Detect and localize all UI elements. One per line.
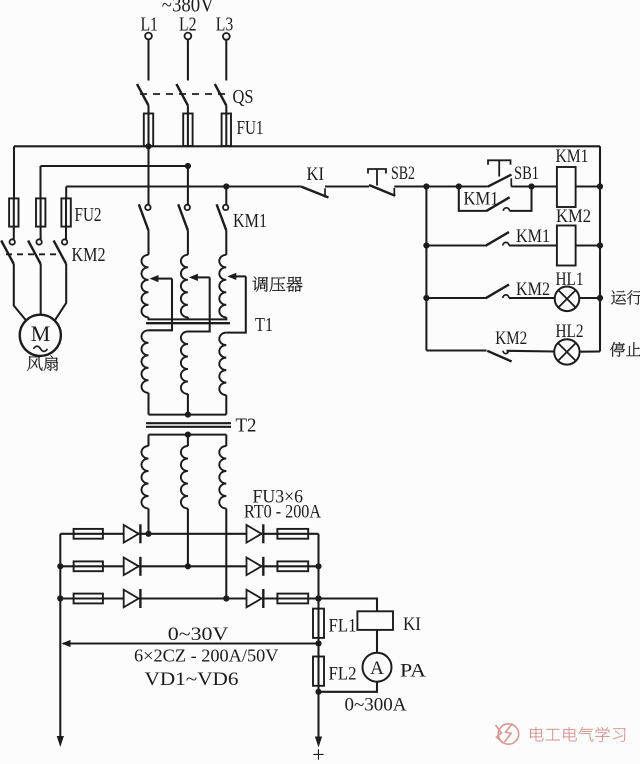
svg-text:HL2: HL2 — [556, 321, 584, 342]
contact KM1 pole3 fixed — [223, 205, 228, 210]
junction self-hold left — [456, 183, 462, 189]
wire bus2 to FU2-2 — [39, 166, 41, 198]
terminal L2 — [185, 33, 192, 40]
svg-text:T1: T1 — [255, 314, 273, 336]
contact KM1 label — [233, 210, 267, 232]
wire HL1 to rail — [579, 297, 600, 299]
svg-text:M: M — [31, 321, 51, 346]
fuse FU3 right row 1 — [277, 529, 308, 539]
label 0~300A — [345, 696, 408, 716]
contact KM1 pole2 fixed — [185, 205, 190, 210]
wire PA return — [319, 682, 378, 692]
diode VD right row 3 — [247, 589, 264, 608]
junction left rail top — [423, 183, 429, 189]
relay coil KI — [357, 611, 393, 630]
watermark text — [530, 727, 625, 742]
terminal label L3 — [216, 14, 234, 36]
svg-text:KM2: KM2 — [72, 244, 106, 266]
wire negative rail — [59, 534, 61, 737]
junction row3 rail — [315, 595, 321, 601]
wire bus3 to FU2-3 — [65, 187, 67, 199]
transformer T1 secondary coil 2 — [181, 332, 188, 395]
wire rectifier row 1 — [60, 533, 318, 535]
wire bus 3 (L3 phase) — [66, 185, 301, 187]
junction self-hold right — [528, 183, 534, 189]
switch QS pole 1 blade — [137, 84, 149, 106]
contact KM1 pole1 fixed — [145, 205, 150, 210]
fuse FL1 — [313, 609, 324, 638]
wire rung3 left — [426, 297, 485, 299]
junction row1 T2-1 — [145, 531, 151, 537]
wire KM2-3 to motor — [55, 264, 66, 320]
wire KM1-1 to T1 — [147, 230, 149, 254]
wire KM2-2 to motor — [40, 264, 42, 315]
contact KM1 self-hold — [459, 187, 532, 212]
motor M letter — [31, 321, 51, 346]
svg-text:0~300A: 0~300A — [345, 696, 408, 716]
junction positive rail row2 — [315, 563, 321, 569]
button SB2 cap — [368, 169, 386, 186]
wire rung2 left — [426, 244, 485, 246]
wire rung4 to HL2 — [507, 350, 555, 353]
wire KI to SB2 — [325, 185, 369, 187]
junction row2 left — [57, 563, 63, 569]
wire T2-3 to rectifier — [225, 509, 227, 599]
terminal label L2 — [179, 14, 197, 36]
wire T2 coil3 drop — [225, 435, 227, 446]
fuse FU2 element 2 — [36, 198, 45, 226]
svg-text:L3: L3 — [216, 14, 234, 36]
svg-text:KM1: KM1 — [233, 210, 267, 232]
svg-text:HL1: HL1 — [556, 269, 584, 290]
wire L3 drop — [225, 40, 227, 81]
wire L1 drop — [147, 39, 149, 80]
wire T1 secondary bus — [149, 414, 227, 416]
wire KM2-1 to motor — [14, 264, 26, 320]
contact KM1 self-hold label — [464, 189, 499, 210]
fuse FU3 left row 2 — [74, 561, 103, 571]
svg-text:6×2CZ - 200A/50V: 6×2CZ - 200A/50V — [134, 646, 279, 666]
label 6x2CZ-200A/50V — [134, 646, 279, 666]
svg-text:KI: KI — [403, 614, 421, 635]
wire L2 bus2 to KM1 — [187, 166, 189, 205]
label yunxing (running) — [611, 290, 640, 304]
wire QS to FU1 L1 — [147, 106, 149, 147]
wire KI to PA — [376, 630, 378, 653]
transformer T2 label — [236, 415, 257, 437]
fuse FL2 — [313, 657, 324, 686]
fuse FU3 label — [253, 487, 304, 508]
svg-text:FL2: FL2 — [329, 664, 357, 685]
fuse FU3 right row 2 — [277, 561, 308, 571]
junction bus2-L2 — [185, 163, 191, 169]
diode VD left row 3 — [124, 589, 141, 608]
wire L2 drop — [187, 39, 189, 80]
wire KM1-2 to T1 — [187, 230, 189, 254]
diode VD left row 2 — [124, 557, 141, 576]
wire rectifier row 3 — [60, 597, 377, 599]
junction PA return — [315, 689, 321, 695]
svg-text:+: + — [312, 742, 324, 764]
wire T1 sec 1 down — [147, 393, 149, 415]
contact KM2 rung3 label — [516, 279, 550, 300]
wire T1 sec 3 down — [225, 395, 227, 415]
contact KI blade — [302, 187, 329, 198]
wiper arrow 2 — [188, 274, 210, 332]
fuse FU1 element 3 — [222, 114, 231, 147]
wire T2 primary bus — [149, 434, 227, 436]
transformer T1 primary coil 2 — [181, 255, 188, 317]
contact KM2 pole3 fixed — [62, 239, 67, 244]
wire T2-1 to rectifier — [147, 509, 149, 534]
ammeter PA circle — [363, 653, 392, 682]
fuse FL1 label — [329, 616, 357, 637]
wire row3 to KI — [319, 599, 378, 612]
fuse FU1 label — [237, 117, 264, 139]
wire rectifier row 2 — [60, 565, 318, 567]
contact KM2 pole2 fixed — [36, 239, 41, 244]
contact KM2 rung4 label — [495, 328, 527, 349]
button SB2 label — [391, 163, 415, 184]
svg-text:KM1: KM1 — [464, 189, 499, 210]
motor M tilde — [34, 346, 48, 351]
svg-text:KM1: KM1 — [556, 146, 589, 167]
junction left rail rung3 — [423, 295, 429, 301]
wiper arrow 3 — [226, 273, 246, 333]
fuse FU2 element 3 — [61, 198, 70, 226]
fuse FU3 right row 3 — [277, 594, 308, 604]
terminal L3 — [223, 33, 230, 40]
contact KM2 label — [72, 244, 106, 266]
terminal label L1 — [140, 14, 158, 36]
switch QS label — [233, 86, 254, 108]
fuse FU1 element 2 — [183, 114, 192, 147]
watermark logo — [496, 724, 519, 745]
wire positive rail top — [317, 534, 319, 609]
lamp HL1 label — [556, 269, 584, 290]
wire T1 primary tie — [149, 317, 227, 319]
coil KM2 label — [556, 206, 591, 227]
coil KM1 — [557, 167, 576, 207]
contact KM2 pole1 fixed — [10, 239, 15, 244]
contact KM2 pole1 blade — [1, 241, 14, 265]
svg-text:A: A — [370, 658, 384, 679]
motor label fengshan (fan) — [27, 356, 58, 371]
diode VD right row 1 — [247, 524, 264, 543]
lamp HL2 — [554, 339, 579, 364]
wire rung2 to KM2 coil — [509, 244, 557, 246]
svg-text:FU2: FU2 — [75, 204, 102, 226]
svg-text:KM2: KM2 — [556, 206, 591, 227]
svg-text:SB2: SB2 — [391, 163, 415, 184]
contact KM1 pole2 blade — [178, 204, 188, 230]
wire KM1-3 to T1 — [225, 230, 227, 254]
wire FL2 down — [317, 686, 319, 737]
svg-text:QS: QS — [233, 86, 254, 108]
svg-text:FU1: FU1 — [237, 117, 264, 139]
label tingzhi (stop) — [610, 342, 640, 357]
wire T1 sec 2 down — [187, 394, 189, 415]
junction right rail rung2 — [597, 242, 603, 248]
svg-text:RT0 - 200A: RT0 - 200A — [244, 502, 321, 523]
negative rail arrowhead — [57, 736, 64, 747]
transformer T1 core — [146, 322, 230, 324]
junction right rail rung1 — [597, 183, 603, 189]
junction positive rail row3 — [315, 595, 321, 601]
transformer T2 coil 3 — [219, 446, 226, 509]
transformer T1 secondary coil 3 — [219, 333, 226, 396]
contact KM2 pole2 blade — [28, 241, 41, 265]
wire FU2-2 through — [40, 198, 42, 239]
svg-text:FL1: FL1 — [329, 616, 357, 637]
contact KM2 link (dashed) — [6, 253, 62, 255]
wire HL2 to rail — [580, 350, 600, 352]
button SB2 blade — [369, 185, 395, 196]
wire bus 1 (L1 phase) — [14, 145, 600, 147]
wire rung4 left — [426, 349, 486, 351]
button SB1 label — [514, 163, 539, 184]
contact KM2 pole3 blade — [54, 241, 67, 265]
wire QS to FU1 L3 — [225, 106, 227, 147]
junction row3 T2-3 — [223, 595, 229, 601]
contact KM1 rung2 — [486, 232, 510, 246]
svg-text:VD1~VD6: VD1~VD6 — [145, 670, 239, 690]
button SB1 blade — [488, 175, 512, 187]
contact KM2 rung4 — [487, 351, 511, 362]
svg-text:T2: T2 — [236, 415, 257, 437]
fuse FU3 left row 3 — [74, 594, 103, 604]
contact KM1 pole3 blade — [217, 204, 227, 230]
junction T2 primary bus — [185, 432, 191, 438]
transformer T1 label — [255, 314, 273, 336]
relay KI label — [403, 614, 421, 635]
wire bus1 to FU2-1 — [13, 146, 15, 198]
wire right rail — [599, 146, 601, 351]
wire T2-2 to rectifier — [187, 509, 189, 567]
junction measurement tap — [315, 640, 321, 646]
svg-text:KM2: KM2 — [516, 279, 550, 300]
wire FU2-1 through — [13, 198, 15, 239]
label VD1~VD6 — [145, 670, 239, 690]
junction T1 secondary bus — [185, 412, 191, 418]
junction right rail rung3 — [597, 295, 603, 301]
svg-text:KM1: KM1 — [516, 226, 550, 247]
svg-text:KM2: KM2 — [495, 328, 527, 349]
switch QS link (dashed) — [140, 93, 231, 95]
wire T2 coil2 drop — [187, 435, 189, 446]
svg-text:SB1: SB1 — [514, 163, 539, 184]
junction bus1-L1 — [145, 143, 151, 149]
wire KM2 coil to rail — [576, 244, 600, 246]
wire rung3 to HL1 — [509, 297, 555, 299]
svg-text:PA: PA — [400, 661, 426, 682]
wire bus 2 (L2 phase) — [41, 165, 188, 167]
wire QS to FU1 L2 — [187, 106, 189, 147]
wire SB2 to SB1 — [394, 185, 487, 187]
transformer T2 core — [146, 423, 231, 427]
transformer T2 coil 1 — [142, 446, 149, 509]
fuse FU2 label — [75, 204, 102, 226]
positive rail arrowhead — [315, 737, 322, 748]
contact KM1 pole1 blade — [139, 204, 149, 230]
wire T2 coil1 drop — [147, 435, 149, 446]
wire L3 bus3 to KM1 — [225, 187, 227, 205]
measurement line 0-30V — [62, 640, 319, 647]
contact KM2 rung3 — [486, 285, 510, 299]
contact KI label — [307, 164, 325, 185]
junction bus3-L3 — [223, 183, 229, 189]
wire FU2-3 through — [65, 198, 67, 239]
label tiaoyaqi (voltage regulator) — [253, 276, 303, 291]
wire KM1 coil to rail — [576, 185, 600, 187]
transformer T1 primary coil 1 — [142, 255, 149, 317]
wiper arrow 1 — [149, 275, 173, 330]
junction row2 T2-2 — [185, 563, 191, 569]
switch QS pole 2 blade — [176, 84, 188, 106]
switch QS pole 3 blade — [215, 84, 227, 106]
transformer T2 coil 2 — [181, 446, 188, 509]
label 0~30V — [168, 624, 229, 645]
label plus terminal — [312, 742, 324, 764]
svg-text:0~30V: 0~30V — [168, 624, 229, 645]
wire FL1 to FL2 — [317, 638, 319, 657]
lamp HL2 label — [556, 321, 584, 342]
terminal L1 — [145, 33, 152, 40]
ammeter PA label — [400, 661, 426, 682]
fuse FU2 element 1 — [9, 198, 18, 226]
wire left rail — [425, 187, 427, 351]
fuse FL2 label — [329, 664, 357, 685]
diode VD right row 2 — [247, 557, 264, 576]
junction left rail rung2 — [423, 242, 429, 248]
wire SB1 to KM1 coil — [511, 185, 557, 187]
net label ~380V — [162, 0, 214, 17]
contact KM1 rung2 label — [516, 226, 550, 247]
lamp HL1 — [555, 287, 580, 312]
transformer T1 secondary coil 1 — [142, 330, 149, 393]
ammeter PA letter A — [370, 658, 384, 679]
svg-text:KI: KI — [307, 164, 325, 185]
diode VD left row 1 — [124, 524, 141, 543]
transformer T1 primary coil 3 — [219, 255, 226, 317]
button SB1 cap — [488, 160, 511, 176]
fuse FU3 left row 1 — [74, 529, 103, 539]
fuse FU1 element 1 — [144, 114, 153, 147]
wire L1 bus1 to KM1 — [147, 146, 149, 204]
junction row3 left — [57, 595, 63, 601]
fuse FU3 value RT0-200A — [244, 502, 321, 523]
coil KM1 label — [556, 146, 589, 167]
coil KM2 — [557, 226, 576, 266]
motor M circle — [20, 315, 61, 356]
